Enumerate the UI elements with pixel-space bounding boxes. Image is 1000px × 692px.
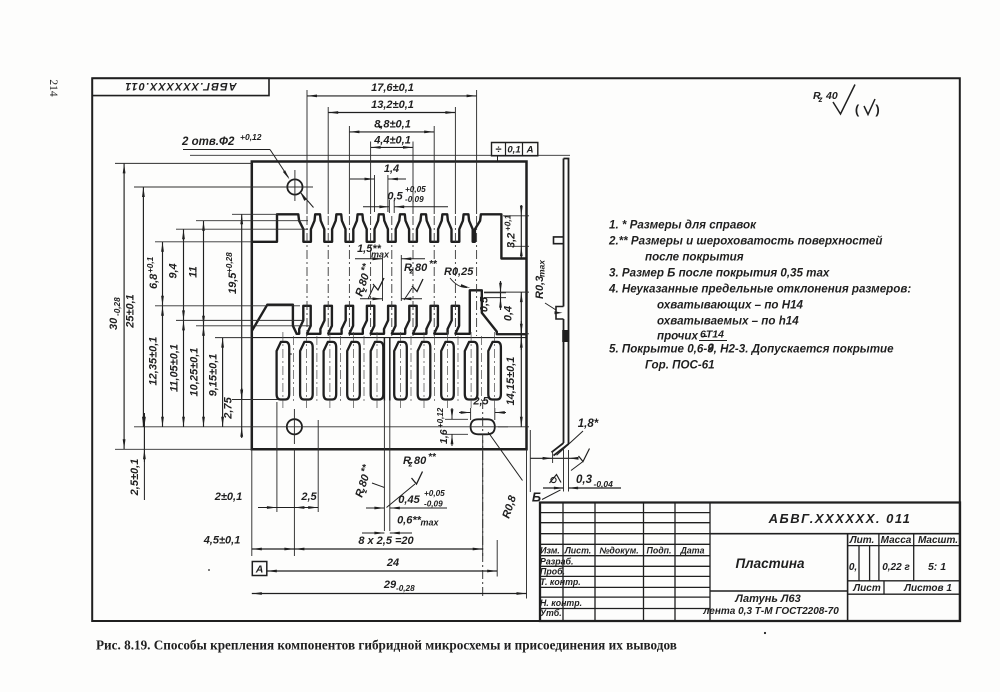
svg-text:охватывающих – по Н14: охватывающих – по Н14 <box>657 299 804 312</box>
svg-text:4. Неуказанные предельные от: 4. Неуказанные предельные отклонения раз… <box>608 283 911 296</box>
plate outline <box>252 162 527 450</box>
svg-text:2.** Размеры и шероховатость: 2.** Размеры и шероховатость поверхносте… <box>608 235 882 248</box>
svg-text:10,25±0,1: 10,25±0,1 <box>189 348 201 397</box>
svg-text:Утб.: Утб. <box>540 608 562 618</box>
svg-text:9,15±0,1: 9,15±0,1 <box>208 354 220 397</box>
svg-text:17,6±0,1: 17,6±0,1 <box>371 82 414 94</box>
svg-text:5: 1: 5: 1 <box>928 561 946 573</box>
svg-text:11,05±0,1: 11,05±0,1 <box>169 344 181 392</box>
bottom dimensions <box>203 402 527 599</box>
svg-text:2: 2 <box>707 342 714 354</box>
svg-text:0,22 г: 0,22 г <box>882 562 910 573</box>
svg-text:2,5: 2,5 <box>300 491 317 503</box>
svg-text:Листов 1: Листов 1 <box>903 583 952 594</box>
svg-text:+0,05: +0,05 <box>424 489 445 498</box>
svg-text:+0,12: +0,12 <box>240 132 262 142</box>
svg-text:40: 40 <box>825 90 838 102</box>
svg-text:Разраб.: Разраб. <box>540 556 573 566</box>
svg-text:2,5±0,1: 2,5±0,1 <box>129 459 141 497</box>
svg-text:Дата: Дата <box>680 546 705 556</box>
svg-text:2 отв.Ф2: 2 отв.Ф2 <box>181 136 235 148</box>
extension line <box>190 154 570 156</box>
svg-text:Масса: Масса <box>881 535 912 546</box>
left dimension chain <box>108 163 243 500</box>
svg-text:Латунь Л63: Латунь Л63 <box>734 593 800 605</box>
right side dimensions 3,2 / 0,5 / 0,4 / 14,15 <box>479 205 530 427</box>
leader line from oblong hole <box>488 432 523 481</box>
rail edge line <box>252 337 527 339</box>
svg-text:8,8±0,1: 8,8±0,1 <box>374 119 411 131</box>
svg-text:2±0,1: 2±0,1 <box>214 491 242 503</box>
svg-text:): ) <box>875 102 879 117</box>
dimension 1,5** max <box>355 243 425 301</box>
svg-text:АБВГ.ХХХХХХ. 011: АБВГ.ХХХХХХ. 011 <box>768 511 912 526</box>
drawing frame border <box>92 78 960 621</box>
svg-text:mах: mах <box>537 259 547 277</box>
svg-text:**: ** <box>359 462 372 474</box>
svg-text:Подп.: Подп. <box>647 546 672 556</box>
svg-text:13,2±0,1: 13,2±0,1 <box>371 99 414 111</box>
scan specks <box>208 126 766 634</box>
svg-text:z: z <box>409 267 414 276</box>
radius R0,25 label <box>444 266 474 288</box>
svg-text:+0,1: +0,1 <box>146 256 155 273</box>
svg-text:19,5: 19,5 <box>227 272 239 294</box>
svg-text:Б: Б <box>532 490 541 505</box>
svg-text:Пластина: Пластина <box>735 556 805 571</box>
svg-text:А: А <box>526 145 534 156</box>
roughness Rz80 (rotated label) <box>352 261 384 299</box>
svg-text:11: 11 <box>188 266 200 277</box>
svg-text:1,6: 1,6 <box>438 429 450 444</box>
svg-text:+0,12: +0,12 <box>436 407 445 428</box>
svg-text:Проб.: Проб. <box>540 567 565 577</box>
svg-text:**: ** <box>428 452 437 463</box>
roughness Rz80 (horizontal label) <box>404 259 438 300</box>
central slit 0,45 <box>384 338 389 509</box>
svg-text:Т. контр.: Т. контр. <box>540 577 581 587</box>
svg-text:0,45: 0,45 <box>398 494 420 506</box>
svg-text:1. * Размеры для справок: 1. * Размеры для справок <box>609 219 757 232</box>
dimension 2,5 (oblong width) <box>459 396 506 421</box>
svg-text:0,3: 0,3 <box>576 474 593 486</box>
svg-text:1,8*: 1,8* <box>578 418 599 430</box>
oblong hole 2,5x1,6 <box>471 400 495 599</box>
svg-text:после покрытия: после покрытия <box>645 251 744 264</box>
svg-text:Рис. 8.19. Способы креплени: Рис. 8.19. Способы крепления компонентов… <box>96 638 677 653</box>
svg-text:80: 80 <box>415 262 428 274</box>
svg-text:9,4: 9,4 <box>168 263 180 278</box>
svg-text:z: z <box>408 460 413 469</box>
svg-text:3. Размер Б после покрытия 0: 3. Размер Б после покрытия 0,35 mах <box>609 267 830 280</box>
radius label R0,8 <box>500 493 519 520</box>
svg-text:30: 30 <box>108 317 120 330</box>
svg-text:214: 214 <box>47 79 59 97</box>
upper sprocket hole Ф2 <box>240 170 313 201</box>
svg-text:2,5: 2,5 <box>472 396 489 408</box>
svg-text:**: ** <box>429 259 438 270</box>
svg-text:-0,28: -0,28 <box>113 297 122 316</box>
svg-text:÷: ÷ <box>495 144 501 156</box>
top dimensions 17,6 / 13,2 / 8,8 / 4,4 <box>307 82 477 149</box>
lower sprocket hole Ф2 <box>287 409 302 444</box>
svg-text:Лист: Лист <box>852 583 881 594</box>
page number 214 <box>47 79 59 97</box>
svg-text:лента 0,3 Т-М ГОСТ2208-70: лента 0,3 Т-М ГОСТ2208-70 <box>702 606 839 617</box>
svg-text:0,4: 0,4 <box>503 306 515 321</box>
svg-text:Масшт.: Масшт. <box>918 535 958 546</box>
dimension 0,5 (slit width) <box>363 185 448 213</box>
hole center line <box>134 426 508 428</box>
svg-text:1,4: 1,4 <box>384 163 399 175</box>
svg-text:№докум.: №докум. <box>599 546 638 556</box>
svg-text:(: ( <box>855 102 860 117</box>
slot centerlines <box>283 332 495 408</box>
svg-text:3,2: 3,2 <box>506 233 518 248</box>
lower teeth row (formed tabs) <box>252 290 527 334</box>
svg-text:0,5: 0,5 <box>479 296 491 312</box>
svg-text:0,: 0, <box>849 562 857 573</box>
svg-text:6,8: 6,8 <box>148 273 160 289</box>
svg-text:Н. контр.: Н. контр. <box>540 598 582 608</box>
svg-text:-0,09: -0,09 <box>405 195 424 204</box>
dimension 1,4 <box>350 163 406 212</box>
svg-text:8 х 2,5 =20: 8 х 2,5 =20 <box>358 535 414 547</box>
svg-text:80: 80 <box>357 472 372 488</box>
stamp box with rotated designation АБВГ.XXXXXX.011 <box>92 78 269 95</box>
svg-text:R0,8: R0,8 <box>500 493 519 520</box>
svg-text:+0,05: +0,05 <box>405 185 426 194</box>
svg-text:4,4±0,1: 4,4±0,1 <box>373 135 411 147</box>
svg-text:25±0,1: 25±0,1 <box>125 294 137 329</box>
svg-text:+0,28: +0,28 <box>225 252 234 273</box>
svg-text:z: z <box>818 95 823 104</box>
svg-text:R0,3: R0,3 <box>534 276 546 299</box>
title block <box>540 503 960 622</box>
svg-text:6Т14: 6Т14 <box>700 329 724 341</box>
svg-text:АБВГ.ХХХХХХ.011: АБВГ.ХХХХХХ.011 <box>124 80 237 92</box>
svg-text:80: 80 <box>357 271 372 287</box>
svg-text:Изм.: Изм. <box>540 546 560 556</box>
side view (edge profile) <box>530 159 621 505</box>
svg-text:охватываемых – по h14: охватываемых – по h14 <box>657 315 799 328</box>
svg-text:Лист.: Лист. <box>564 546 591 556</box>
tolerance frame 0,1 A <box>492 143 538 162</box>
svg-text:R0,25: R0,25 <box>444 266 474 278</box>
svg-text:Гор. ПОС-61: Гор. ПОС-61 <box>645 359 715 372</box>
roughness Rz80 bottom horizontal <box>387 452 437 508</box>
figure caption <box>96 638 677 653</box>
svg-text:-0,28: -0,28 <box>396 584 415 593</box>
surface finish symbol Rz40 (v) <box>813 85 880 118</box>
svg-text:80: 80 <box>414 455 427 467</box>
svg-text:mах: mах <box>421 518 440 528</box>
upper teeth row (punched comb) <box>252 214 527 258</box>
svg-text:0,1: 0,1 <box>507 145 520 156</box>
roughness Rz80 bottom rotated <box>352 462 385 499</box>
technical notes 1-5 <box>608 219 911 372</box>
dimension 1,6+0,12 (oblong height) <box>436 407 468 446</box>
leader 2 отв.Ф2+0,12 <box>181 132 314 208</box>
svg-text:0,6**: 0,6** <box>397 515 422 527</box>
svg-text:29: 29 <box>383 579 397 591</box>
svg-text:5. Покрытие 0,6-9, Н2-3. До: 5. Покрытие 0,6-9, Н2-3. Допускается пок… <box>609 343 894 356</box>
svg-text:А: А <box>255 564 264 576</box>
svg-text:4,5±0,1: 4,5±0,1 <box>203 535 241 547</box>
svg-text:14,15±0,1: 14,15±0,1 <box>505 357 517 406</box>
svg-text:-0,09: -0,09 <box>424 500 443 509</box>
left extension lines <box>115 163 312 449</box>
svg-text:24: 24 <box>386 557 399 569</box>
row of 10 elongated slots <box>277 342 501 400</box>
vertical centerlines of teeth <box>307 216 477 336</box>
extension lines of top dims <box>307 90 477 214</box>
svg-text:+0,1: +0,1 <box>504 214 513 231</box>
svg-text:12,35±0,1: 12,35±0,1 <box>148 337 160 386</box>
svg-text:Лит.: Лит. <box>849 535 875 546</box>
